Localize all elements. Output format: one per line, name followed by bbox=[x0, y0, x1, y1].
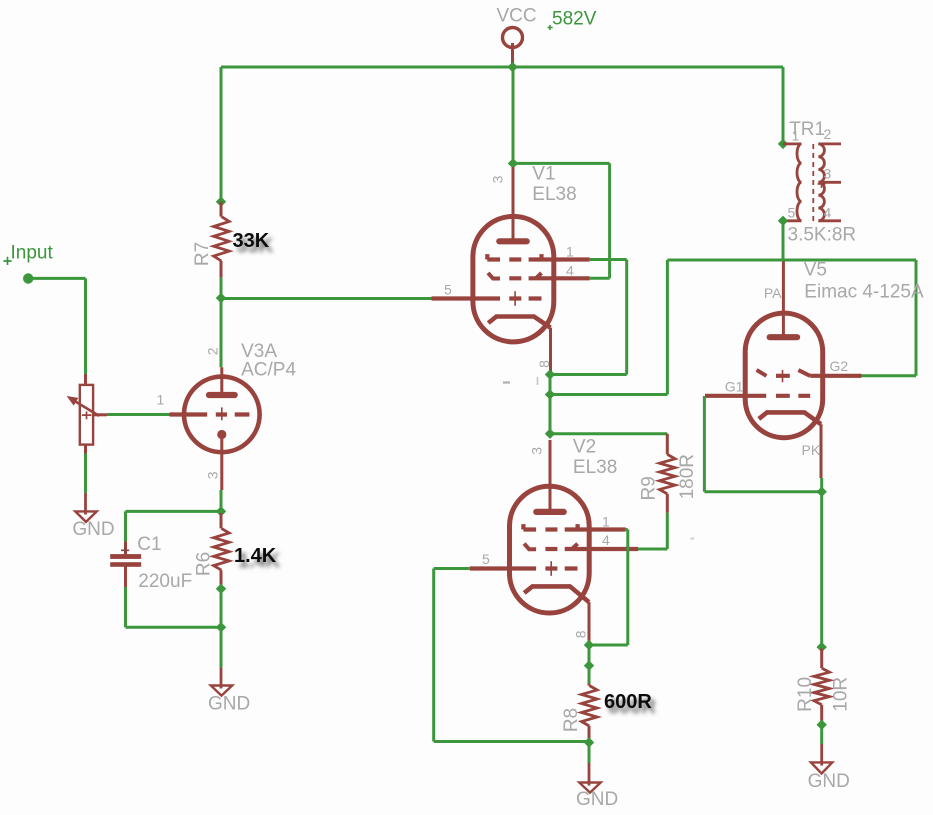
wire V2 g1 feedback loop bbox=[434, 569, 589, 742]
resistor R9 bbox=[660, 434, 676, 513]
svg-text:GND: GND bbox=[808, 771, 850, 792]
supply symbol VCC bbox=[497, 6, 537, 64]
capacitor C1 bbox=[110, 542, 141, 588]
junction cathode node 2 bbox=[584, 660, 594, 670]
svg-text:R7: R7 bbox=[192, 242, 213, 266]
svg-text:5: 5 bbox=[444, 282, 452, 298]
tube V1 EL38 pentode bbox=[432, 167, 590, 373]
ground GND (R10) bbox=[808, 744, 850, 792]
resistor R10 bbox=[814, 649, 830, 721]
svg-text:V1: V1 bbox=[532, 164, 555, 185]
junction V3A anode node bbox=[216, 293, 226, 303]
svg-text:10R: 10R bbox=[830, 677, 851, 712]
svg-text:4: 4 bbox=[602, 532, 610, 548]
tube V5 Eimac 4-125A tetrode bbox=[705, 262, 862, 479]
svg-text:EL38: EL38 bbox=[573, 457, 617, 478]
wire bbox=[691, 538, 695, 540]
svg-text:R6: R6 bbox=[194, 552, 215, 576]
svg-text:4: 4 bbox=[566, 263, 574, 279]
wire V2 g3 to cathode bbox=[589, 530, 628, 646]
wire R10 to ground bbox=[820, 721, 823, 745]
junction R8 bottom bbox=[584, 737, 594, 747]
svg-text:180R: 180R bbox=[677, 454, 698, 499]
wire anode node to R9 bbox=[550, 432, 667, 435]
svg-text:PA: PA bbox=[764, 285, 782, 301]
svg-text:4: 4 bbox=[824, 205, 832, 221]
svg-text:C1: C1 bbox=[137, 534, 161, 555]
svg-text:33K: 33K bbox=[233, 230, 270, 252]
junction R6 bottom bbox=[216, 584, 226, 594]
svg-text:R8: R8 bbox=[561, 708, 582, 732]
svg-text:1.4K: 1.4K bbox=[234, 545, 277, 567]
svg-text:R9: R9 bbox=[639, 476, 660, 500]
svg-text:5: 5 bbox=[482, 551, 490, 567]
svg-text:AC/P4: AC/P4 bbox=[241, 359, 296, 380]
svg-text:VCC: VCC bbox=[497, 6, 537, 27]
junction V2 cathode bbox=[584, 640, 594, 650]
svg-text:GND: GND bbox=[72, 519, 114, 540]
svg-text:EL38: EL38 bbox=[532, 184, 576, 205]
svg-text:2: 2 bbox=[204, 347, 220, 355]
wire node down to V3A bbox=[220, 298, 223, 367]
junction R10 top bbox=[817, 642, 827, 652]
resistor R7 bbox=[214, 202, 230, 278]
wire rail to R7 bbox=[220, 67, 223, 202]
wire R8 to ground bbox=[588, 740, 591, 764]
svg-text:600R: 600R bbox=[604, 691, 652, 713]
svg-text:3.5K:8R: 3.5K:8R bbox=[788, 225, 857, 246]
junction V2 anode node bbox=[545, 429, 555, 439]
wire V1 anode to g2 loop bbox=[513, 163, 610, 278]
junction C1 return bbox=[216, 622, 226, 632]
svg-text:3: 3 bbox=[490, 175, 506, 183]
svg-text:5: 5 bbox=[788, 205, 796, 221]
potentiometer bbox=[67, 374, 107, 454]
junction V5 cathode bbox=[817, 487, 827, 497]
junction V1 cathode bbox=[545, 369, 555, 379]
svg-text:220uF: 220uF bbox=[138, 571, 192, 592]
wire V1 g3 to cathode bbox=[550, 260, 627, 375]
wire rail to TR1 bbox=[782, 67, 785, 144]
ground GND (R6) bbox=[208, 667, 250, 714]
svg-text:1: 1 bbox=[602, 513, 610, 529]
wire R6 bottom bbox=[220, 585, 223, 668]
svg-text:V5: V5 bbox=[804, 260, 827, 281]
svg-text:582V: 582V bbox=[552, 9, 597, 30]
tube V3A AC/P4 triode bbox=[170, 367, 260, 490]
junction V1 anode node bbox=[508, 158, 518, 168]
svg-text:8: 8 bbox=[573, 630, 589, 638]
svg-text:1: 1 bbox=[157, 392, 165, 408]
svg-text:Input: Input bbox=[11, 243, 54, 264]
junction R10 bottom bbox=[817, 720, 827, 730]
svg-text:G1: G1 bbox=[725, 379, 744, 395]
wire input bbox=[28, 278, 86, 374]
junction TR1 pin 5 bbox=[778, 216, 788, 226]
wire node to V1 g1 bbox=[221, 297, 432, 300]
resistor R6 bbox=[214, 513, 230, 585]
junction TR1 pin 1 bbox=[778, 139, 788, 149]
junction VCC rail bbox=[507, 62, 517, 72]
wire pot wiper to V3A grid bbox=[107, 413, 170, 416]
ground GND (input) bbox=[72, 493, 114, 540]
wire V3A cathode down bbox=[220, 490, 223, 511]
svg-text:GND: GND bbox=[576, 789, 618, 810]
resistor R8 bbox=[582, 684, 598, 740]
svg-text:3: 3 bbox=[529, 447, 545, 455]
wire C1 to cathode return bbox=[126, 587, 222, 627]
junction drive node bbox=[545, 389, 555, 399]
transformer TR1 bbox=[783, 144, 841, 221]
net label 582V bbox=[548, 9, 597, 31]
wire R9 to V2 g2 bbox=[638, 513, 667, 549]
svg-text:1: 1 bbox=[566, 244, 574, 260]
wire V5 g1 to cathode bbox=[704, 396, 821, 492]
svg-text:3: 3 bbox=[824, 166, 832, 182]
wire R7 to grid node bbox=[220, 278, 223, 298]
wire pot to ground bbox=[84, 454, 87, 493]
svg-text:PK: PK bbox=[802, 442, 821, 458]
tube V2 EL38 pentode bbox=[470, 440, 638, 642]
net label Input bbox=[3, 243, 53, 266]
svg-text:V2: V2 bbox=[573, 437, 596, 458]
ground GND (V2 cathode) bbox=[576, 763, 618, 810]
svg-text:R10: R10 bbox=[795, 677, 816, 712]
svg-text:3: 3 bbox=[204, 471, 220, 479]
svg-text:2: 2 bbox=[824, 126, 832, 142]
wire V1 cathode to V2 anode bbox=[549, 375, 552, 434]
wire bbox=[503, 381, 510, 383]
junction cathode node bbox=[216, 506, 226, 516]
wire TR1 pin 5 to V5 anode bbox=[782, 221, 785, 259]
wire drive node to V5 g2 bbox=[550, 260, 916, 395]
svg-text:GND: GND bbox=[208, 694, 250, 715]
svg-text:8: 8 bbox=[536, 360, 552, 368]
svg-text:1: 1 bbox=[792, 128, 800, 144]
node input endpoint bbox=[23, 273, 33, 283]
wire cathode to C1 bbox=[126, 511, 222, 541]
svg-text:Eimac 4-125A: Eimac 4-125A bbox=[804, 282, 924, 303]
wire B+ rail bbox=[221, 66, 783, 69]
wire rail to V1 anode bbox=[512, 67, 515, 163]
junction R7 top bbox=[216, 197, 226, 207]
wire V5 cathode to R10 bbox=[820, 478, 823, 649]
svg-text:G2: G2 bbox=[830, 358, 849, 374]
wire V2 cathode down bbox=[588, 642, 591, 684]
